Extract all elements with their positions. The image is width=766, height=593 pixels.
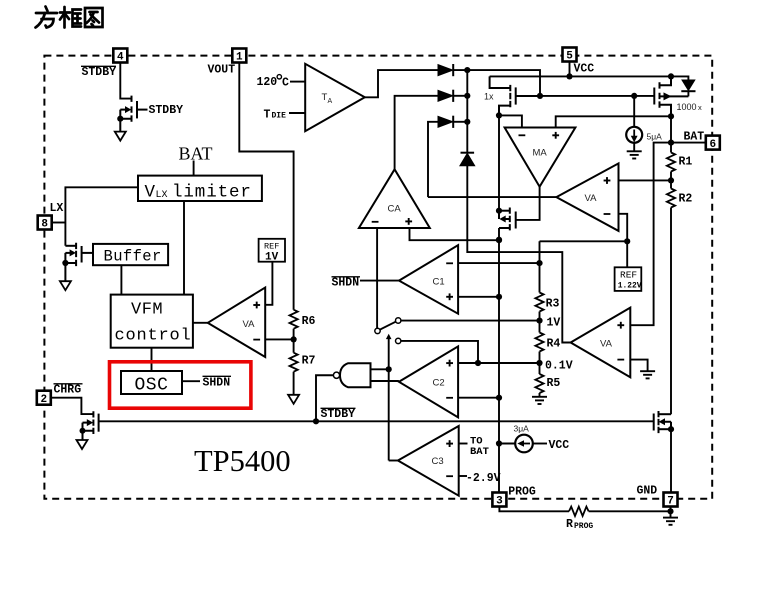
svg-text:VA: VA bbox=[585, 193, 598, 204]
wire VCC rail bbox=[490, 75, 671, 77]
ground (Q2 source) bbox=[60, 281, 71, 290]
wire R7 to ground bbox=[293, 372, 295, 395]
wire VA+ to R1/R2 node bbox=[619, 179, 672, 181]
node D3/bus bbox=[464, 119, 470, 125]
svg-text:limiter: limiter bbox=[172, 183, 252, 203]
box REF 1.22V bbox=[615, 267, 642, 291]
resistor R6 bbox=[290, 310, 298, 329]
wire R5 to ground bbox=[539, 393, 541, 397]
svg-text:1: 1 bbox=[236, 52, 243, 64]
svg-text:R1: R1 bbox=[679, 156, 693, 169]
svg-text:CHRG: CHRG bbox=[54, 384, 82, 397]
svg-text:R7: R7 bbox=[302, 355, 316, 368]
svg-text:3μA: 3μA bbox=[514, 424, 530, 434]
wire BAT to limiter box bbox=[193, 161, 195, 176]
node nand in1 bbox=[386, 366, 392, 372]
node mirror gate bbox=[537, 93, 543, 99]
node R1/R2/VA+ bbox=[668, 177, 674, 183]
op-amp MA (mirror amp) bbox=[505, 128, 576, 187]
current source 5uA bbox=[626, 127, 642, 143]
svg-text:V: V bbox=[145, 183, 156, 203]
wire TDIE stub bbox=[289, 112, 305, 114]
svg-text:5: 5 bbox=[566, 51, 573, 63]
svg-text:VFM: VFM bbox=[131, 301, 163, 320]
svg-text:VCC: VCC bbox=[549, 439, 570, 452]
ground (VA-) bbox=[640, 371, 655, 378]
svg-text:5μA: 5μA bbox=[647, 132, 663, 142]
wire C2+ to 0.1V node bbox=[458, 362, 539, 364]
ground (below R7) bbox=[288, 395, 299, 404]
pin 7 bbox=[664, 493, 678, 508]
wire R1 to R2 bbox=[670, 172, 672, 189]
svg-text:7: 7 bbox=[667, 496, 674, 508]
wire limiter bottom to VFM box bbox=[183, 201, 185, 295]
wire throw1 to 1V node bbox=[401, 320, 540, 322]
svg-text:C: C bbox=[282, 77, 289, 90]
svg-text:R: R bbox=[566, 518, 573, 531]
pin 3 bbox=[492, 493, 506, 508]
node Q4 drain / MA- bbox=[496, 112, 502, 118]
wire R6 to R7 bbox=[293, 329, 295, 353]
wire R4 to R5 bbox=[539, 352, 541, 375]
svg-text:CA: CA bbox=[388, 204, 402, 215]
resistor R5 bbox=[535, 374, 543, 393]
resistor R2 bbox=[667, 189, 675, 208]
op-amp VA (VFM error amp) bbox=[208, 288, 265, 358]
node Q5 source/bus bbox=[496, 237, 502, 243]
op-amp TA (temperature) bbox=[305, 64, 365, 131]
node 0.1V bbox=[536, 360, 542, 366]
svg-text:R6: R6 bbox=[302, 315, 316, 328]
wire Q6 drain to BAT node bbox=[670, 116, 672, 142]
svg-text:C1: C1 bbox=[433, 277, 445, 288]
wire PROG bus upper (1x drain to Q5) bbox=[498, 106, 500, 211]
svg-text:STDBY: STDBY bbox=[82, 66, 117, 79]
node R6/R7 junction bbox=[291, 336, 297, 342]
wire SHDN to C1 output bbox=[360, 280, 399, 282]
chip boundary dashed border bbox=[44, 56, 712, 499]
resistor R7 bbox=[290, 353, 298, 372]
highlight red box around OSC/SHDN bbox=[110, 362, 251, 408]
transistor Q2 (LX buffer input) bbox=[65, 243, 93, 281]
svg-text:SHDN: SHDN bbox=[203, 377, 231, 390]
wire C1+ to PROG bus bbox=[458, 296, 499, 298]
wire C3 output to control line bbox=[389, 460, 398, 462]
wire D3 to bus bbox=[453, 121, 467, 123]
wire BAT to pin6 bbox=[671, 142, 707, 144]
transistor Q7 (battery disconnect) bbox=[654, 411, 671, 433]
pin 8 bbox=[38, 216, 52, 231]
switch SW1 lever bbox=[380, 322, 396, 330]
svg-text:LX: LX bbox=[50, 202, 64, 215]
node D1/bus bbox=[464, 67, 470, 73]
switch SW1 throw 1V contact bbox=[396, 318, 401, 323]
wire VA output to D3/Q5 gate bbox=[428, 196, 556, 198]
wire D4 to lower VA output bbox=[467, 166, 570, 343]
resistor R4 bbox=[535, 333, 543, 352]
svg-text:1V: 1V bbox=[547, 317, 561, 330]
diode D4 (in bus, pointing down) bbox=[461, 152, 475, 154]
transistor Q6 (PMOS 1000x) bbox=[654, 76, 688, 116]
wire VFM box to VA output bbox=[193, 322, 208, 324]
wire nand in1 to control line bbox=[371, 368, 389, 370]
resistor RPROG bbox=[569, 507, 589, 516]
svg-text:A: A bbox=[328, 98, 333, 105]
wire node to REF1.22V box bbox=[626, 241, 628, 267]
wire C2- to PROG bus bbox=[458, 397, 499, 399]
transistor Q1 (STDBY switch) bbox=[120, 96, 147, 132]
svg-text:4: 4 bbox=[117, 52, 124, 64]
wire R3 to R4, node 1V bbox=[539, 312, 541, 333]
resistor R1 bbox=[670, 143, 672, 153]
transistor Q5 (series sense FET) bbox=[499, 208, 516, 231]
node bus/3uA/C3 bbox=[496, 440, 502, 446]
op-amp VA (charge control) bbox=[556, 163, 618, 231]
switch SW1 pivot bbox=[375, 328, 380, 333]
pin 2 bbox=[37, 391, 51, 406]
box REF 1V bbox=[259, 239, 285, 262]
svg-text:LX: LX bbox=[156, 190, 168, 201]
svg-text:TP5400: TP5400 bbox=[194, 444, 291, 478]
current source 3uA bbox=[515, 435, 533, 453]
wire VA- to R6/R7 node bbox=[265, 338, 293, 340]
svg-text:VOUT: VOUT bbox=[208, 64, 236, 77]
wire pin4 stem to Q1 drain bbox=[120, 63, 131, 99]
node BAT bbox=[668, 140, 674, 146]
wire REF1V to VA+ bbox=[265, 262, 272, 305]
switch control arrow from C3/NAND bbox=[386, 334, 392, 339]
comparator C1 bbox=[399, 245, 458, 314]
box Buffer bbox=[93, 244, 168, 265]
wire TA output to diode D1 bbox=[365, 70, 438, 97]
wire pin2 CHRG to Q3 drain bbox=[51, 398, 94, 414]
node Q5 drain/bus bbox=[496, 208, 502, 214]
ground (Q3 source) bbox=[77, 440, 88, 449]
comparator C2 bbox=[399, 346, 458, 417]
wire VA- to ground bbox=[630, 360, 647, 372]
diode D3 bbox=[438, 116, 453, 127]
svg-text:VA: VA bbox=[600, 339, 613, 350]
svg-text:STDBY: STDBY bbox=[149, 104, 184, 117]
diode D2 bbox=[438, 90, 453, 101]
op-amp CA (current amp) bbox=[359, 169, 430, 228]
node D2/bus bbox=[464, 93, 470, 99]
node nand out / gate line bbox=[313, 418, 319, 424]
svg-text:1.22V: 1.22V bbox=[618, 282, 642, 291]
comparator C3 bbox=[398, 426, 459, 496]
node pin7 bottom bbox=[667, 508, 673, 514]
wire OSC to SHDN label bbox=[182, 380, 200, 382]
svg-text:2: 2 bbox=[41, 394, 48, 406]
wire STDBY gate line (Q3 gate to Q7 gate) bbox=[99, 420, 654, 422]
wire pin3 to RPROG bbox=[499, 507, 569, 512]
svg-text:R2: R2 bbox=[679, 193, 693, 206]
diode D5 (body diode) bbox=[671, 76, 688, 80]
box VLX limiter bbox=[138, 176, 262, 201]
svg-text:1x: 1x bbox=[484, 92, 494, 102]
wire nand in2 to C2 output bbox=[371, 380, 399, 382]
pin 4 bbox=[113, 49, 127, 64]
pin 5 bbox=[563, 48, 577, 63]
wire mirror gate line to Q6 gate bbox=[539, 95, 654, 97]
svg-text:control: control bbox=[115, 327, 192, 346]
wire REF node to R3 top bbox=[540, 241, 628, 263]
node Q7 source bbox=[668, 426, 674, 432]
wire C1- to R3 top node bbox=[458, 262, 539, 264]
wire MA+ lead to Q6 drain bbox=[556, 116, 671, 127]
title 方框图 (block diagram) drawn strokes bbox=[36, 7, 103, 28]
svg-text:1V: 1V bbox=[265, 252, 279, 264]
pin 1 bbox=[232, 49, 246, 64]
wire D1 to mirror gate line bbox=[453, 70, 540, 96]
wire Buffer to VFM box bbox=[120, 265, 122, 294]
node C1-/R3 bbox=[536, 260, 542, 266]
pin 6 bbox=[706, 136, 720, 151]
wire pin7 to ground bbox=[670, 511, 672, 517]
wire VA- to REF1.22V node bbox=[619, 214, 628, 242]
svg-text:BAT: BAT bbox=[470, 446, 489, 458]
node C2-/bus bbox=[496, 395, 502, 401]
svg-text:x: x bbox=[698, 103, 702, 112]
wire throw2 to C2+ wire bbox=[401, 341, 478, 363]
svg-text:0.1V: 0.1V bbox=[545, 360, 573, 373]
wire CA+ to PROG bus bbox=[410, 228, 500, 240]
svg-text:SHDN: SHDN bbox=[332, 277, 360, 290]
wire C3- stub bbox=[459, 475, 467, 477]
wire VFM to OSC bbox=[151, 348, 153, 371]
ground (pin7) bbox=[663, 518, 678, 525]
node throw2/C2+ bbox=[475, 360, 481, 366]
transistor Q4 (PMOS 1x) bbox=[490, 76, 540, 115]
svg-text:8: 8 bbox=[41, 219, 48, 231]
wire CA output up to diode D2 bbox=[395, 96, 438, 170]
wire pin1 VOUT down and over to R6 bbox=[239, 63, 293, 310]
wire 5uA stem bbox=[633, 96, 635, 127]
resistor R3 bbox=[539, 263, 541, 292]
wire diode bus bbox=[466, 70, 468, 152]
svg-text:1000: 1000 bbox=[677, 102, 697, 112]
ground (Q1 source) bbox=[115, 132, 126, 141]
wire C3+ stub bbox=[459, 443, 468, 445]
wire 5uA to ground bbox=[633, 143, 635, 152]
op-amp VA (battery voltage amp) bbox=[571, 308, 631, 378]
wire D2 to bus bbox=[453, 95, 467, 97]
svg-text:Buffer: Buffer bbox=[104, 248, 162, 266]
ground (below R5) bbox=[532, 397, 547, 404]
diode D1 bbox=[438, 65, 453, 76]
wire MA output down to Q5 gate bbox=[516, 187, 540, 220]
wire 120C stub bbox=[290, 81, 305, 83]
svg-text:VA: VA bbox=[243, 319, 256, 330]
wire nand output to STDBY gate line bbox=[316, 375, 333, 421]
wire pin8 to LX vertical bbox=[51, 222, 65, 224]
node CA+/bus bbox=[496, 237, 502, 243]
wire RPROG to pin7 bottom bbox=[589, 507, 671, 512]
wire PROG bus lower (Q5 to pin3) bbox=[498, 228, 500, 493]
node REF1.22V bbox=[624, 238, 630, 244]
svg-text:BAT: BAT bbox=[179, 144, 213, 164]
wire 3uA to VCC label bbox=[533, 443, 547, 445]
svg-text:-2.9V: -2.9V bbox=[466, 472, 501, 485]
transistor Q3 (CHRG open-drain) bbox=[83, 411, 99, 440]
svg-text:REF: REF bbox=[620, 270, 637, 281]
svg-text:R3: R3 bbox=[546, 298, 560, 311]
svg-text:BAT: BAT bbox=[684, 131, 705, 144]
wire Q7 source to pin7 bbox=[670, 429, 672, 492]
svg-text:R4: R4 bbox=[547, 338, 561, 351]
svg-text:C2: C2 bbox=[433, 378, 445, 389]
node VCC / Q6 bbox=[668, 73, 674, 79]
svg-text:3: 3 bbox=[496, 496, 503, 508]
svg-text:DIE: DIE bbox=[272, 112, 287, 121]
box OSC bbox=[121, 371, 182, 394]
node 5uA tap bbox=[631, 93, 637, 99]
box VFM control bbox=[111, 295, 193, 348]
svg-text:REF: REF bbox=[264, 242, 279, 252]
node C1+/bus bbox=[496, 294, 502, 300]
svg-text:R5: R5 bbox=[547, 377, 561, 390]
svg-text:120: 120 bbox=[257, 76, 278, 89]
svg-text:OSC: OSC bbox=[135, 376, 169, 396]
wire VA output line down to diode D3 bbox=[428, 122, 438, 197]
node VCC stem bbox=[566, 73, 572, 79]
wire limiter left to LX vertical bbox=[65, 187, 138, 246]
svg-text:PROG: PROG bbox=[508, 486, 536, 499]
svg-text:PROG: PROG bbox=[574, 522, 593, 531]
wire pin5 VCC stem bbox=[569, 61, 571, 77]
svg-text:6: 6 bbox=[710, 139, 717, 151]
svg-text:MA: MA bbox=[533, 148, 548, 159]
nand gate U1 bbox=[340, 363, 371, 387]
wire CA- down to switch pivot bbox=[376, 228, 378, 328]
wire BAT branch down to lower VA+ bbox=[630, 143, 671, 326]
node Q6 drain / MA+ bbox=[668, 113, 674, 119]
wire MA- lead bbox=[499, 115, 522, 127]
svg-text:STDBY: STDBY bbox=[321, 408, 356, 421]
svg-text:VCC: VCC bbox=[574, 63, 595, 76]
svg-text:C3: C3 bbox=[432, 456, 444, 467]
svg-text:GND: GND bbox=[637, 485, 658, 498]
ground (5uA) bbox=[627, 151, 642, 158]
wire bus to 3uA source bbox=[499, 443, 515, 445]
wire R2 down to Q7 drain bbox=[670, 208, 672, 415]
svg-text:T: T bbox=[264, 109, 271, 122]
switch SW1 throw 0.1V contact bbox=[396, 338, 401, 343]
